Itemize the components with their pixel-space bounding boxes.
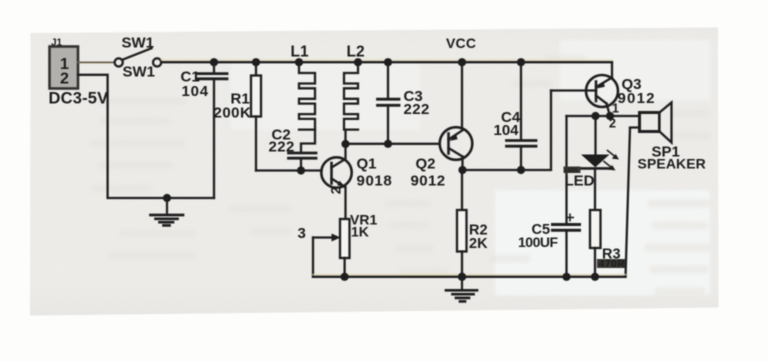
svg-text:9012: 9012: [411, 173, 446, 190]
capacitor C5: [553, 214, 580, 276]
svg-text:200K: 200K: [214, 105, 252, 122]
junction R2 bottom: [458, 273, 466, 281]
junction L2 bottom / Q1 collector: [341, 140, 349, 148]
junction L2 top: [354, 58, 362, 66]
wire R1/C2 to Q1 base: [256, 169, 322, 171]
capacitor C1: [198, 62, 227, 198]
resistor R2: [457, 210, 467, 277]
junction C4 top: [517, 58, 525, 66]
transistor Q1: [321, 144, 351, 219]
wire J1 pin2 to ground rail: [78, 75, 214, 198]
LED light arrows: [604, 151, 619, 171]
junction VR1 bottom: [341, 273, 349, 281]
transistor Q3: [586, 62, 618, 116]
wire Q2 emitter to Q3 base riser: [463, 91, 552, 171]
svg-text:DC3-5V: DC3-5V: [49, 90, 109, 108]
svg-text:222: 222: [404, 101, 430, 118]
svg-text:100UF: 100UF: [518, 234, 558, 250]
junction C2 bottom: [297, 166, 305, 174]
svg-text:104: 104: [494, 122, 520, 139]
junction R3 bottom: [591, 273, 599, 281]
svg-text:9012: 9012: [618, 90, 656, 107]
svg-text:1: 1: [612, 102, 619, 116]
wire SP1 pin2 return: [630, 126, 640, 129]
speaker SP1: [640, 103, 672, 143]
wire LED/speaker node: [567, 115, 640, 117]
svg-text:LED: LED: [565, 173, 595, 190]
wire Q2 emitter down to R2: [461, 170, 463, 210]
svg-text:2: 2: [328, 187, 343, 195]
inductor L1: [299, 62, 315, 129]
svg-text:104: 104: [182, 83, 209, 100]
svg-text:3: 3: [298, 225, 306, 242]
junction C5 bottom: [562, 273, 570, 281]
value tag 470R (R3): [597, 259, 626, 270]
wire L2 bottom to Q2 base: [346, 143, 440, 145]
junction Q2 emitter node: [458, 166, 466, 174]
transistor Q2: [440, 62, 473, 170]
resistor R3: [590, 210, 601, 277]
junction C1 top: [210, 58, 218, 66]
svg-text:222: 222: [269, 139, 295, 156]
svg-text:2K: 2K: [469, 236, 488, 252]
capacitor C3: [378, 62, 400, 144]
junction ground rail: [163, 194, 171, 202]
svg-text:Q1: Q1: [357, 156, 377, 173]
svg-text:1K: 1K: [351, 224, 369, 240]
wire bottom ground rail: [313, 274, 626, 276]
svg-text:L2: L2: [347, 44, 365, 61]
svg-text:2: 2: [609, 117, 616, 131]
label tag LED1: [564, 167, 581, 175]
ground (bottom rail): [446, 277, 477, 302]
svg-text:J1: J1: [51, 38, 63, 49]
wire J1 pin1 to SW1: [78, 61, 115, 63]
faint print bleed-through marks: [90, 55, 710, 295]
wire C5 riser: [565, 116, 567, 224]
svg-text:9018: 9018: [357, 173, 393, 190]
junction C3 bottom: [384, 140, 392, 148]
connector J1 battery box: [50, 47, 79, 89]
svg-text:2: 2: [60, 71, 69, 88]
capacitor C2: [289, 153, 317, 171]
svg-text:VCC: VCC: [446, 35, 476, 51]
junction Q2 collector / VCC rail: [458, 58, 466, 66]
junction LED anode: [591, 112, 599, 120]
junction Q3 collector: [606, 112, 614, 120]
svg-text:470R: 470R: [599, 259, 625, 270]
switch SW1: [115, 48, 162, 66]
svg-text:Q2: Q2: [416, 156, 436, 173]
wire Q3 base: [551, 89, 596, 91]
capacitor C4: [507, 62, 537, 170]
svg-text:SW1: SW1: [123, 64, 156, 81]
junction C4 bottom: [517, 166, 525, 174]
junction C3 top: [384, 58, 392, 66]
LED LED1: [581, 116, 610, 210]
wire main VCC rail: [161, 59, 612, 61]
scan brightness patches: [230, 40, 710, 295]
junction R1 top: [252, 58, 260, 66]
svg-text:L1: L1: [291, 44, 309, 61]
svg-text:SW1: SW1: [122, 35, 155, 52]
potentiometer VR1: [313, 219, 350, 277]
ground (battery): [151, 198, 184, 225]
junction L1 top: [295, 58, 303, 66]
svg-text:SPEAKER: SPEAKER: [638, 156, 706, 172]
resistor R1: [251, 62, 261, 170]
inductor L2: [344, 62, 358, 129]
